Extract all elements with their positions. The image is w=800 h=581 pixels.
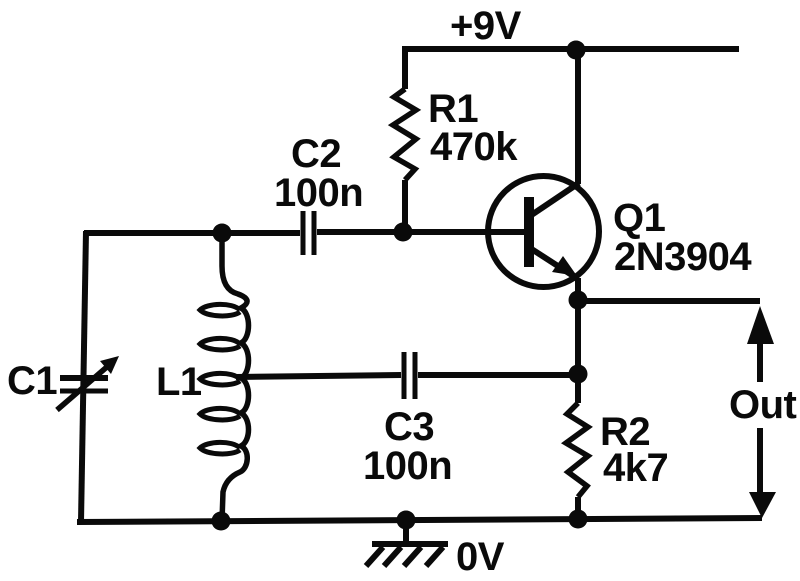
svg-text:+9V: +9V (450, 4, 522, 48)
svg-text:0V: 0V (456, 535, 505, 579)
L1 loop 1 (200, 304, 240, 316)
wire out arrow shaft lower (757, 428, 763, 496)
svg-text:C1: C1 (7, 359, 57, 403)
wire R2 bottom lead (575, 497, 581, 519)
ground hatch 3 (404, 547, 421, 566)
L1 loop 5 (200, 442, 240, 454)
ground hatch 1 (366, 547, 383, 566)
capacitor C1 arrow line (57, 366, 108, 410)
node R1 bottom (394, 223, 413, 242)
wire base rail left (84, 230, 300, 236)
C1 arrowhead (100, 356, 119, 374)
out arrowhead down (749, 492, 776, 518)
node ground (397, 511, 416, 530)
capacitor C3 (404, 352, 415, 399)
wire top +9V rail (402, 46, 739, 52)
wire C3 to emitter node (418, 372, 578, 378)
wire bottom rail (77, 518, 762, 522)
transistor Q1 emitter arrowhead (552, 256, 577, 276)
wire R1 bottom lead (402, 180, 408, 232)
transistor Q1 emitter line (530, 248, 578, 279)
ground stub (403, 520, 409, 543)
wire out top (578, 298, 760, 304)
node L1 bottom (212, 512, 231, 531)
svg-text:100n: 100n (363, 444, 452, 488)
L1 loop 2 (200, 338, 240, 350)
inductor L1 (222, 233, 249, 521)
wire out arrow shaft upper (757, 340, 763, 382)
wire left vertical (81, 231, 86, 522)
node emitter (569, 291, 588, 310)
ground hatch 2 (384, 547, 401, 566)
wire base rail right (317, 229, 525, 235)
wire L1 tap to C3 (236, 375, 401, 377)
out arrowhead up (747, 306, 774, 344)
svg-text:Q1: Q1 (613, 196, 666, 240)
svg-text:470k: 470k (430, 125, 518, 169)
ground bar (372, 541, 448, 547)
svg-text:2N3904: 2N3904 (614, 235, 752, 279)
svg-text:C3: C3 (384, 405, 434, 449)
transistor Q1 base bar (524, 197, 534, 267)
transistor Q1 circle (488, 176, 599, 287)
transistor Q1 collector line (530, 183, 579, 216)
wire collector vertical (575, 50, 581, 184)
wire R1 top lead (402, 49, 408, 89)
svg-text:C2: C2 (291, 132, 341, 176)
node C3-R2 (569, 365, 588, 384)
svg-text:4k7: 4k7 (603, 446, 668, 490)
L1 loop 3 (200, 373, 240, 385)
wire emitter node down (575, 278, 581, 403)
node R2 bottom (569, 510, 588, 529)
capacitor C2 (303, 211, 314, 255)
svg-text:Out: Out (729, 383, 797, 427)
resistor R1 (393, 89, 416, 180)
svg-text:100n: 100n (274, 171, 363, 215)
capacitor C1 plates (60, 375, 108, 381)
node L1 top (213, 224, 232, 243)
resistor R2 (566, 403, 588, 497)
node collector-rail (567, 41, 586, 60)
svg-text:L1: L1 (156, 360, 202, 404)
L1 loop 4 (200, 408, 240, 420)
ground hatch 4 (426, 547, 443, 566)
